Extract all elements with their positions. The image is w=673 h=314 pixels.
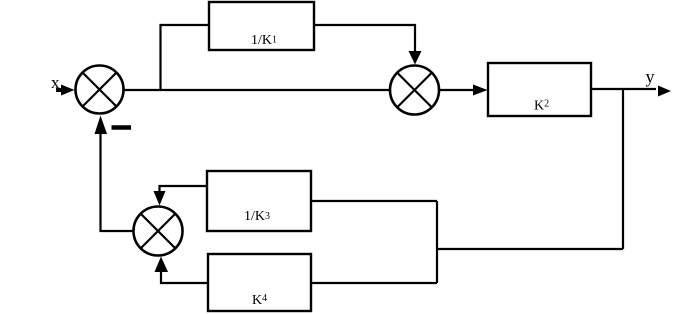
multiplier M2 xyxy=(134,207,183,256)
wire K2 to output xyxy=(591,88,656,90)
arrow into S1 bottom xyxy=(95,116,108,135)
feedback branch down xyxy=(622,89,624,249)
svg-text:1/K3: 1/K3 xyxy=(244,209,270,224)
block 1/K3 xyxy=(207,171,311,231)
arrow into K2 xyxy=(473,85,488,96)
multiplier M1 xyxy=(390,66,439,115)
summing junction S1 xyxy=(76,66,124,114)
svg-text:y: y xyxy=(646,66,655,86)
wire K4 to M2 xyxy=(161,270,208,283)
feedback wire bottom xyxy=(437,248,623,250)
input arrow xyxy=(56,85,75,96)
wire branch up to 1/K1 xyxy=(161,25,210,90)
right connector vertical xyxy=(436,201,438,283)
wire M1 to K2 xyxy=(439,89,476,91)
output arrow xyxy=(658,86,671,97)
block K2 xyxy=(488,63,591,116)
wire 1/K3 to M2 xyxy=(160,186,208,192)
wire M2 to S1 xyxy=(101,134,134,231)
wire to K4 right xyxy=(311,282,437,284)
wire 1/K1 to M1 xyxy=(314,25,415,52)
wire to 1/K3 right xyxy=(311,200,437,202)
minus sign xyxy=(112,125,132,130)
wire main S1 to M1 xyxy=(124,89,391,91)
arrow into M1 top xyxy=(409,51,422,65)
arrow into M2 top xyxy=(154,191,166,206)
block 1/K1 xyxy=(209,2,314,50)
block K4 xyxy=(208,254,311,311)
arrow into M2 bottom xyxy=(155,257,169,273)
